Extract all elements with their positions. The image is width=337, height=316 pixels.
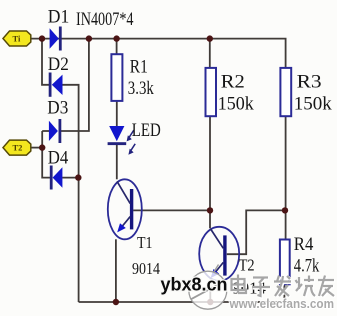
- svg-text:D1: D1: [48, 7, 70, 28]
- svg-text:ybx8.cn: ybx8.cn: [161, 275, 228, 295]
- svg-text:T2: T2: [239, 255, 255, 274]
- svg-text:D3: D3: [47, 98, 68, 119]
- svg-text:Ti: Ti: [13, 34, 22, 44]
- svg-text:4.7k: 4.7k: [294, 257, 320, 277]
- svg-text:D4: D4: [48, 147, 69, 168]
- svg-text:IN4007*4: IN4007*4: [76, 9, 134, 30]
- svg-text:T2: T2: [13, 143, 23, 153]
- svg-text:R1: R1: [130, 58, 148, 78]
- svg-text:3.3k: 3.3k: [128, 79, 155, 99]
- svg-text:9014: 9014: [132, 259, 160, 278]
- svg-text:R2: R2: [221, 72, 245, 92]
- svg-text:R3: R3: [297, 72, 322, 92]
- svg-text:www.elecfans.com: www.elecfans.com: [229, 297, 334, 311]
- svg-text:150k: 150k: [218, 94, 255, 114]
- svg-text:T1: T1: [137, 233, 153, 252]
- svg-text:150k: 150k: [294, 94, 333, 114]
- svg-text:D2: D2: [48, 54, 69, 75]
- svg-text:LED: LED: [132, 121, 161, 141]
- svg-text:R4: R4: [294, 235, 314, 255]
